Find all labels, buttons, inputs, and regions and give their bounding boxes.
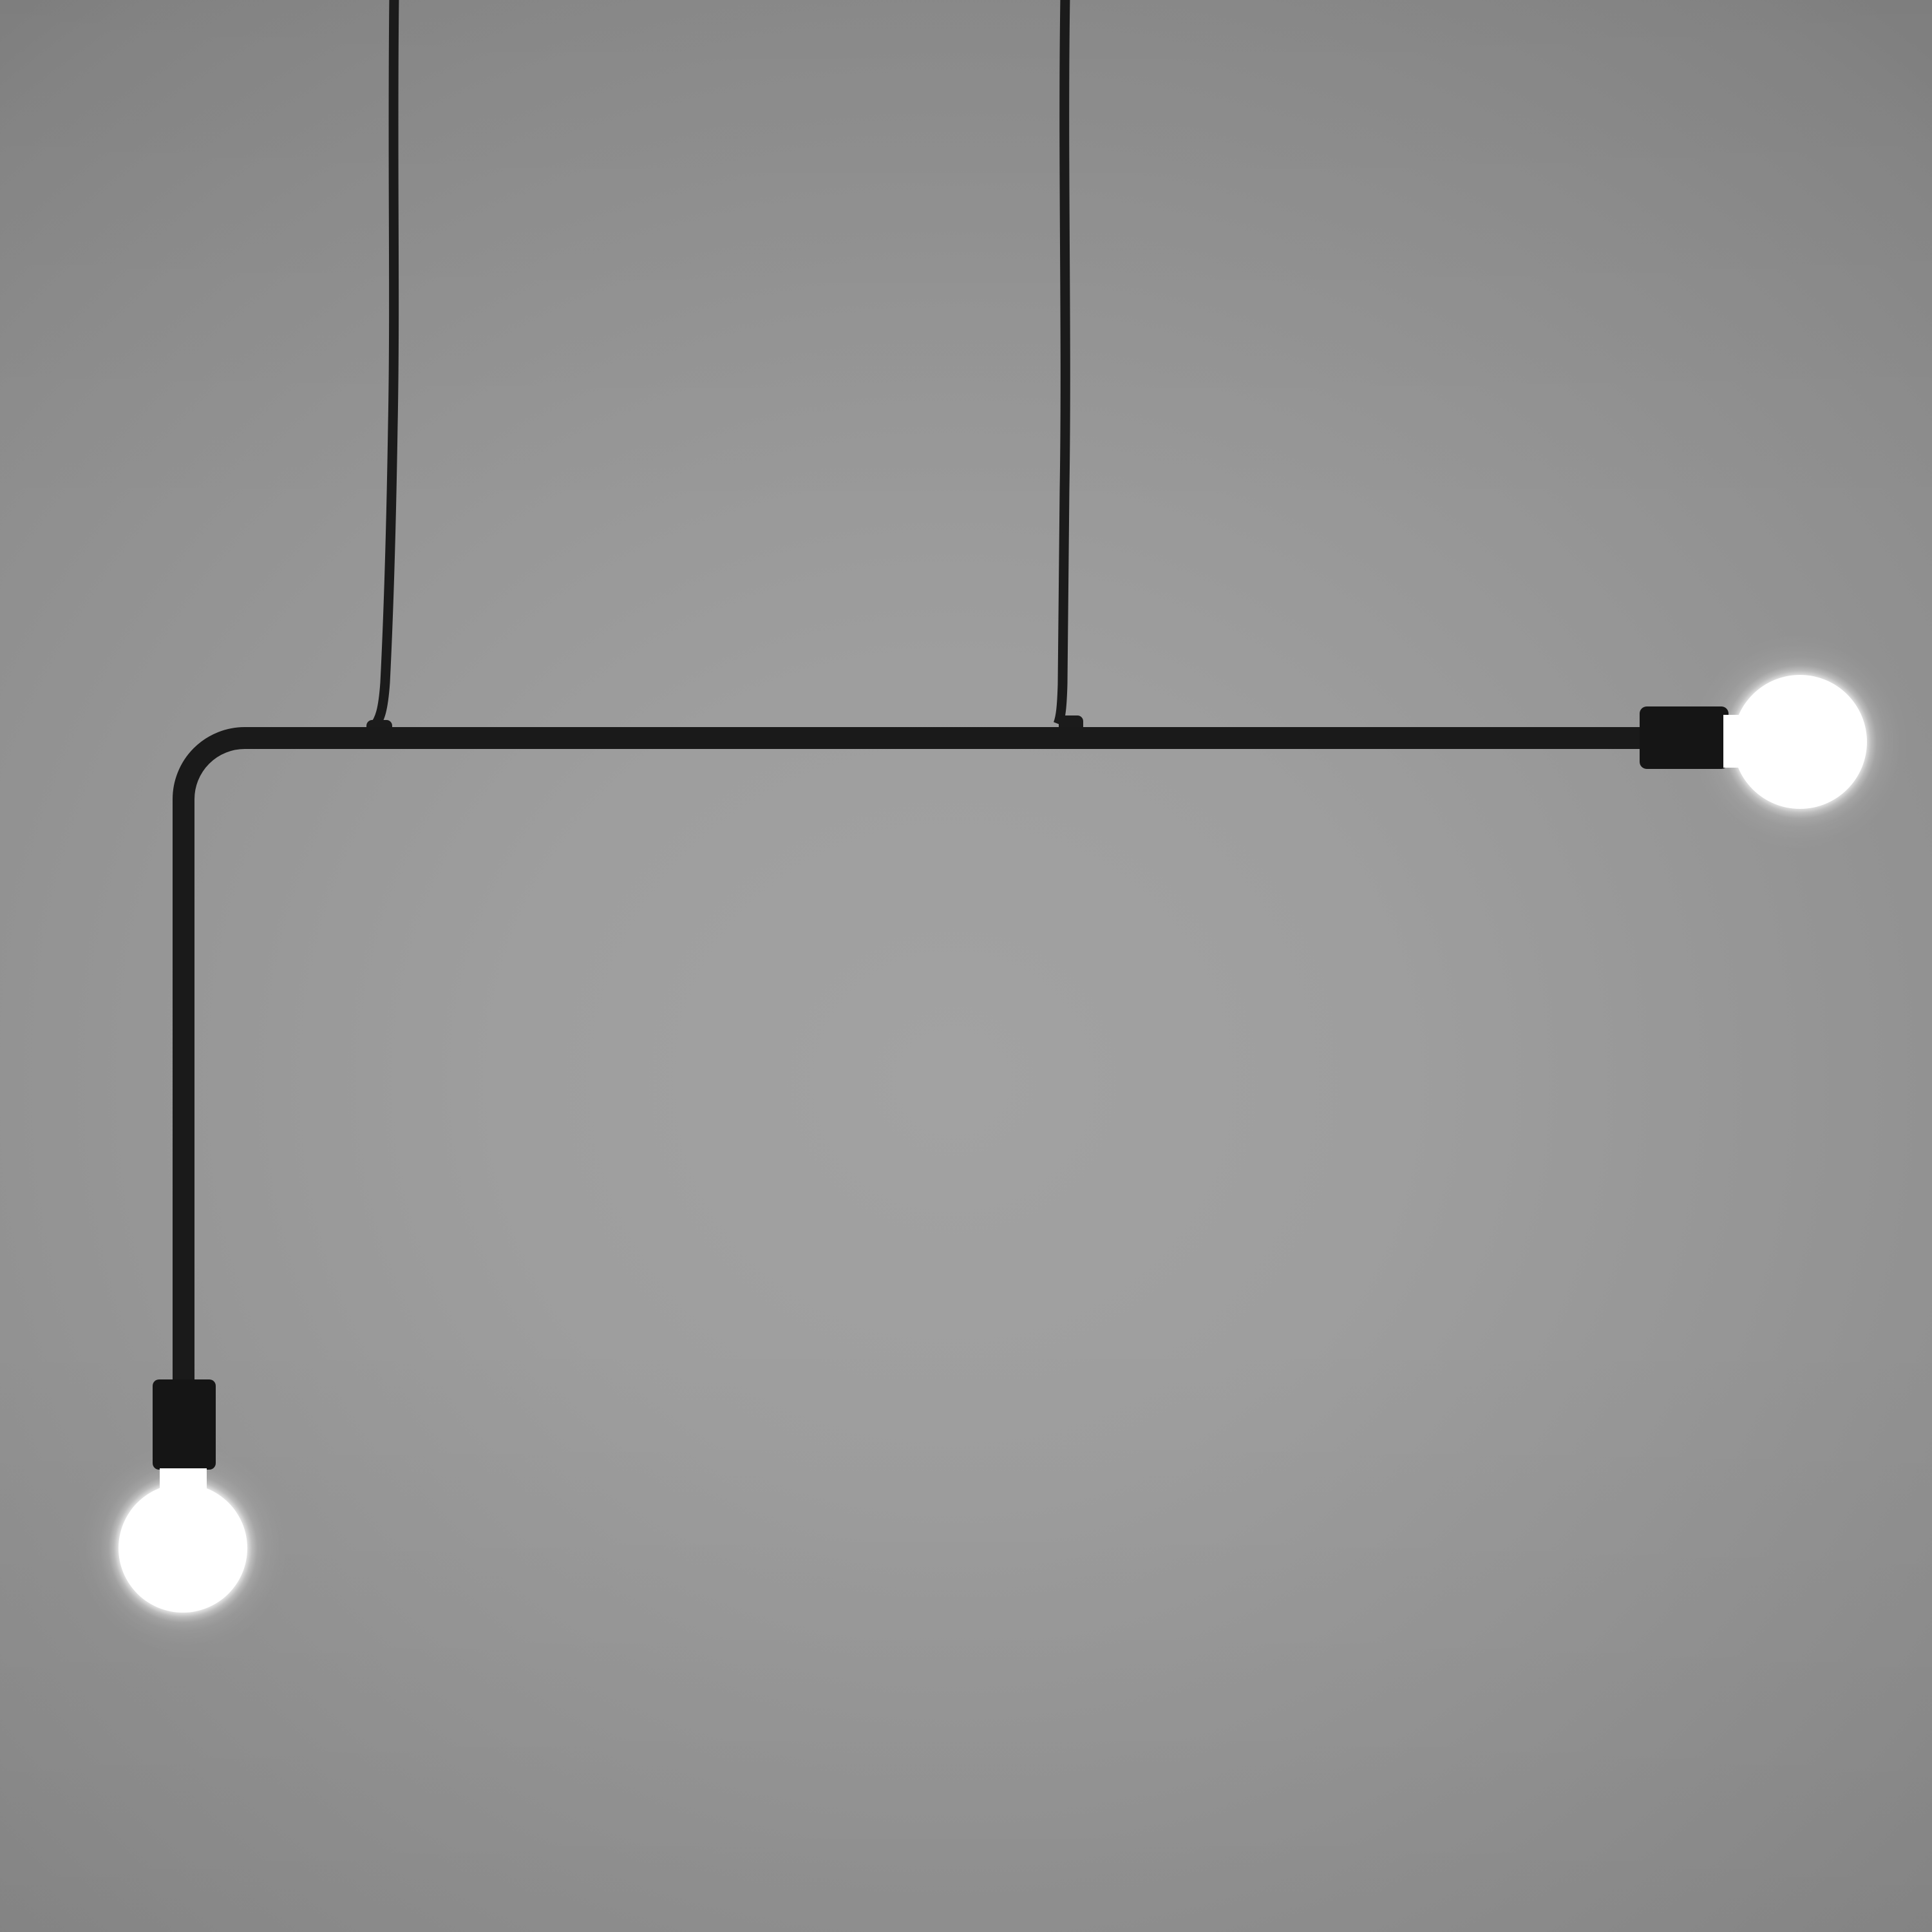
bulb neck left [160, 1468, 207, 1513]
glow left bulb [77, 1442, 289, 1654]
cable clip left [366, 720, 392, 736]
socket left [153, 1379, 216, 1470]
glow right bulb [1690, 632, 1909, 851]
suspension cable left [374, 0, 394, 727]
bulb right [1733, 675, 1867, 809]
suspension cable right [1058, 0, 1065, 724]
cable clip right [1059, 715, 1083, 733]
socket right [1640, 706, 1728, 769]
frame tube [184, 738, 1649, 1391]
bulb left [118, 1484, 247, 1613]
bulb neck right [1723, 715, 1749, 768]
